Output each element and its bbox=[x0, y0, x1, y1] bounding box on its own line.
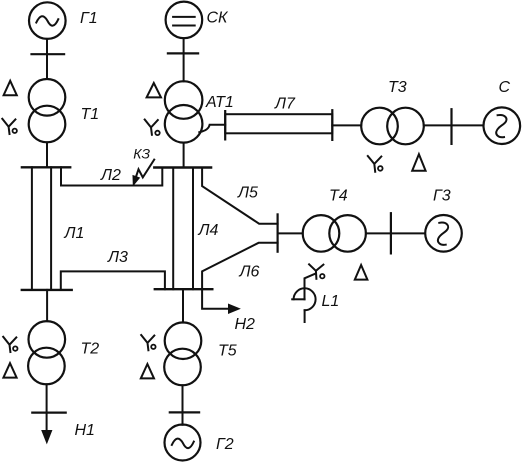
load H1 arrow bbox=[42, 431, 52, 444]
left bottom bus bbox=[22, 289, 72, 291]
system C circle bbox=[484, 107, 521, 144]
wire L7 to T3 bbox=[332, 124, 361, 126]
wire T4 to G3 bbox=[366, 232, 425, 234]
node bar L5/L6 junction bbox=[277, 214, 279, 251]
Y0 winding symbol T4 bbox=[309, 264, 324, 279]
autotransformer AT1 bbox=[165, 81, 203, 142]
wire T3 to system C bbox=[424, 124, 484, 126]
svg-text:Н1: Н1 bbox=[75, 422, 95, 439]
delta winding symbol T5 bbox=[141, 364, 154, 378]
delta winding symbol T2 bbox=[3, 363, 16, 377]
tick on C lead bbox=[450, 109, 452, 144]
generator G2 circle bbox=[165, 425, 201, 461]
delta winding symbol T1 bbox=[4, 81, 17, 95]
svg-text:Л6: Л6 bbox=[239, 264, 260, 281]
svg-text:АТ1: АТ1 bbox=[205, 94, 234, 111]
wire T1 to bus bbox=[46, 142, 48, 167]
tick on G2 lead bbox=[170, 411, 199, 413]
tick on H1 lead bbox=[32, 412, 65, 414]
delta winding symbol AT1 bbox=[147, 83, 161, 97]
svg-text:Л5: Л5 bbox=[237, 185, 258, 202]
load H2 arrow bbox=[229, 304, 240, 313]
svg-text:Г3: Г3 bbox=[433, 188, 451, 205]
line Л4 (double circuit) bbox=[173, 168, 193, 290]
Y0 winding symbol T1 bbox=[2, 119, 17, 134]
right bottom bus bbox=[155, 288, 213, 290]
delta winding symbol T3 bbox=[412, 154, 425, 171]
svg-text:Т5: Т5 bbox=[218, 343, 237, 360]
Y0 winding symbol T3 bbox=[368, 156, 383, 172]
wire AT1 to line L7 (curved) bbox=[199, 125, 225, 132]
tick on CK lead bbox=[168, 52, 198, 54]
line Л7 symbol bbox=[225, 110, 332, 140]
wire T2 to load H1 bbox=[46, 384, 48, 433]
svg-text:Н2: Н2 bbox=[235, 316, 256, 333]
wire G1 to T1 bbox=[46, 39, 48, 79]
short-circuit marker КЗ arrow bbox=[133, 160, 154, 186]
line Л6 bbox=[202, 243, 278, 289]
generator G1 circle bbox=[29, 2, 66, 39]
line Л3 bbox=[61, 271, 165, 290]
svg-text:L1: L1 bbox=[322, 293, 340, 310]
svg-text:Л3: Л3 bbox=[107, 249, 128, 266]
transformer T4 bbox=[303, 215, 366, 252]
Y0 winding symbol T2 bbox=[3, 337, 17, 352]
svg-text:Т1: Т1 bbox=[81, 106, 100, 123]
wire junction to T4 bbox=[278, 232, 303, 234]
tick on G1 lead bbox=[32, 53, 65, 55]
svg-text:Л7: Л7 bbox=[274, 96, 296, 113]
svg-text:Т3: Т3 bbox=[388, 79, 407, 96]
wire bus to T2 bbox=[46, 290, 48, 321]
svg-text:Л2: Л2 bbox=[100, 167, 121, 184]
svg-text:КЗ: КЗ bbox=[133, 146, 150, 162]
transformer T2 bbox=[28, 321, 65, 384]
delta winding symbol T4 bbox=[355, 265, 368, 280]
Y0 winding symbol T5 bbox=[141, 335, 155, 350]
svg-text:Т4: Т4 bbox=[329, 188, 348, 205]
svg-text:Л4: Л4 bbox=[198, 222, 219, 239]
svg-text:Т2: Т2 bbox=[81, 341, 100, 358]
wire CK to AT1 bbox=[183, 38, 185, 81]
transformer T3 bbox=[361, 108, 424, 145]
svg-text:СК: СК bbox=[207, 10, 230, 27]
Y0 winding symbol AT1 bbox=[145, 120, 160, 136]
transformer T1 bbox=[29, 79, 66, 142]
svg-text:Л1: Л1 bbox=[64, 225, 85, 242]
line Л1 (double circuit) bbox=[32, 167, 51, 290]
svg-text:Г2: Г2 bbox=[216, 436, 234, 453]
right top bus bbox=[154, 166, 211, 168]
load H2 branch wire bbox=[202, 289, 231, 309]
svg-text:С: С bbox=[499, 79, 511, 96]
wire AT1 to bus bbox=[183, 143, 185, 168]
line Л5 bbox=[202, 168, 278, 224]
synchronous compensator CK circle bbox=[166, 2, 203, 39]
line Л2 bbox=[61, 167, 162, 185]
reactor L1 bbox=[292, 288, 315, 322]
transformer T5 bbox=[164, 322, 201, 385]
left top bus bbox=[22, 166, 70, 168]
svg-text:Г1: Г1 bbox=[80, 10, 98, 27]
wire bus to T5 bbox=[182, 289, 184, 322]
wire T5 to G2 bbox=[182, 385, 184, 425]
wire Y0 neutral to reactor L1 bbox=[305, 274, 316, 300]
tick on G3 lead bbox=[390, 213, 392, 253]
generator G3 circle bbox=[425, 215, 462, 252]
